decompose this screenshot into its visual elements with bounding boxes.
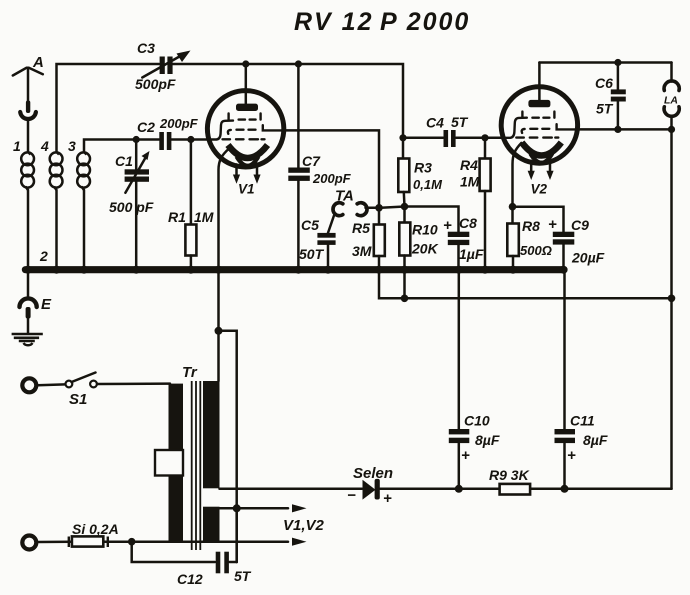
svg-text:C12: C12: [177, 571, 203, 587]
svg-text:C3: C3: [137, 40, 155, 56]
svg-text:3: 3: [68, 138, 76, 154]
svg-text:5T: 5T: [234, 568, 252, 584]
svg-text:R1: R1: [168, 209, 186, 225]
svg-text:Selen: Selen: [353, 465, 393, 482]
svg-text:20µF: 20µF: [571, 250, 605, 266]
svg-text:Tr: Tr: [182, 364, 198, 381]
svg-text:R4: R4: [460, 157, 478, 173]
svg-text:1: 1: [13, 138, 21, 154]
svg-text:R9 3K: R9 3K: [489, 467, 530, 483]
svg-text:C8: C8: [459, 215, 477, 231]
svg-text:500 pF: 500 pF: [109, 199, 154, 215]
svg-text:1µF: 1µF: [459, 246, 484, 262]
svg-text:C1: C1: [115, 153, 133, 169]
svg-text:E: E: [41, 296, 52, 313]
svg-text:C5: C5: [301, 217, 319, 233]
svg-text:A: A: [32, 54, 44, 71]
svg-text:20K: 20K: [411, 241, 439, 257]
svg-text:+: +: [567, 447, 576, 464]
svg-text:C6: C6: [595, 75, 613, 91]
svg-text:LA: LA: [664, 94, 678, 106]
svg-text:C10: C10: [464, 413, 490, 429]
svg-text:P 2000: P 2000: [380, 8, 470, 36]
svg-text:1M: 1M: [194, 209, 214, 225]
svg-text:R8: R8: [522, 218, 540, 234]
svg-text:5T: 5T: [596, 101, 614, 117]
svg-text:+: +: [461, 447, 470, 464]
svg-text:+: +: [443, 217, 452, 234]
svg-text:50T: 50T: [299, 246, 325, 262]
svg-text:500Ω: 500Ω: [520, 243, 552, 258]
svg-text:V1,V2: V1,V2: [283, 517, 325, 534]
svg-text:3M: 3M: [352, 243, 372, 259]
svg-text:8µF: 8µF: [475, 432, 500, 448]
svg-text:−: −: [347, 487, 356, 504]
svg-text:8µF: 8µF: [583, 432, 608, 448]
svg-text:R10: R10: [412, 222, 438, 238]
svg-text:C7: C7: [302, 153, 321, 169]
svg-text:+: +: [548, 216, 557, 233]
svg-text:C11: C11: [570, 413, 595, 429]
svg-text:R5: R5: [352, 220, 370, 236]
svg-text:200pF: 200pF: [312, 171, 352, 186]
svg-text:Si 0,2A: Si 0,2A: [72, 521, 119, 537]
svg-text:RV 12: RV 12: [294, 8, 373, 36]
svg-text:C2: C2: [137, 119, 155, 135]
svg-text:C9: C9: [571, 217, 589, 233]
svg-text:1M: 1M: [460, 174, 480, 190]
svg-text:4: 4: [40, 138, 49, 154]
svg-text:V2: V2: [531, 182, 548, 197]
svg-text:S1: S1: [69, 391, 87, 408]
svg-text:0,1M: 0,1M: [413, 177, 443, 192]
svg-text:500pF: 500pF: [135, 76, 176, 92]
svg-text:V1: V1: [238, 182, 255, 197]
svg-text:5T: 5T: [451, 114, 469, 130]
svg-text:200pF: 200pF: [159, 116, 199, 131]
svg-text:+: +: [383, 490, 392, 507]
svg-text:2: 2: [39, 248, 48, 264]
svg-text:C4: C4: [426, 115, 444, 131]
svg-text:R3: R3: [414, 160, 432, 176]
